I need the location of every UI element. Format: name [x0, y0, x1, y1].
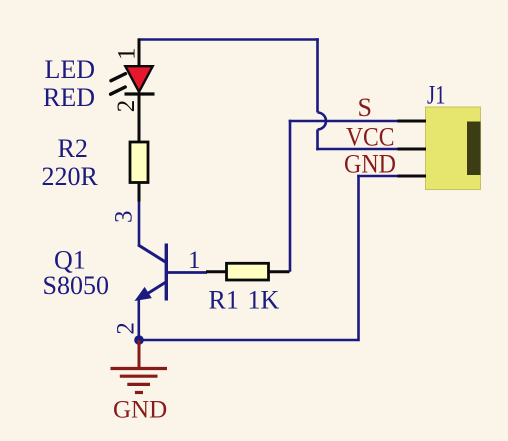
svg-text:VCC: VCC: [346, 123, 395, 152]
wire: GND vertical down: [357, 175, 360, 342]
LED light tick mark upper: [111, 74, 126, 81]
wire: right vertical upper segment (above crossover): [316, 38, 319, 112]
svg-text:220R: 220R: [42, 162, 99, 191]
wire: VCC horizontal to J1 pin 2: [316, 148, 398, 151]
wire: bottom horizontal from junction to GND vertical: [139, 339, 359, 342]
R2 body: [130, 142, 148, 183]
wire: R2 bottom to Q1 collector: [138, 200, 141, 246]
svg-text:2: 2: [113, 100, 140, 113]
R1 right pin (black): [269, 270, 290, 273]
svg-text:3: 3: [111, 211, 138, 224]
svg-text:2: 2: [113, 322, 140, 335]
LED pin 2 line (cathode, black): [138, 94, 141, 143]
wire: right vertical lower segment (below crossover): [316, 130, 319, 151]
svg-text:1K: 1K: [248, 286, 280, 315]
Q1 collector diagonal: [138, 245, 166, 262]
svg-text:R2: R2: [58, 134, 88, 163]
Q1 base line (navy): [166, 271, 207, 274]
Q1 emitter diagonal: [141, 282, 167, 298]
LED triangle (anode): [125, 66, 152, 92]
R1 left pin (black): [206, 270, 227, 273]
ground bar 4: [135, 391, 143, 394]
LED light tick mark lower: [111, 87, 126, 94]
wire: S horizontal from left vertical to J1 pin 1: [289, 120, 398, 123]
J1 pin 3 line (GND, black): [398, 175, 427, 178]
ground stem: [138, 340, 141, 369]
svg-text:1: 1: [188, 247, 201, 274]
junction node at emitter/ground/bottom wire: [134, 335, 144, 345]
svg-text:GND: GND: [113, 397, 167, 424]
svg-text:GND: GND: [344, 150, 396, 179]
LED pin 1 line (anode, black): [138, 39, 141, 68]
R2 bottom pin (black): [138, 183, 141, 202]
wire: crossover hop arc over S wire: [318, 113, 327, 130]
ground bar 3: [127, 383, 150, 386]
J1 pin 2 line (VCC, black): [398, 148, 427, 151]
wire: top horizontal from LED anode to right vertical: [138, 38, 319, 41]
LED cathode bar: [125, 92, 155, 95]
ground bar 2: [120, 375, 158, 378]
svg-text:R1: R1: [209, 286, 239, 315]
J1 pin 1 line (S, black): [398, 120, 427, 123]
R1 body: [227, 263, 269, 280]
wire: emitter vertical to junction: [138, 297, 141, 340]
svg-text:RED: RED: [43, 83, 95, 112]
Q1 emitter arrow: [136, 288, 151, 300]
ground bar 1: [111, 367, 168, 370]
J1 body: [426, 107, 481, 190]
Q1 base bar: [165, 244, 168, 301]
svg-text:J1: J1: [427, 81, 446, 110]
wire: S vertical down to R1 right pin: [289, 120, 292, 272]
svg-text:LED: LED: [45, 55, 96, 84]
svg-text:1: 1: [114, 48, 141, 61]
J1 polarity bar: [467, 122, 481, 176]
svg-text:S: S: [358, 93, 372, 122]
svg-text:S8050: S8050: [43, 271, 109, 300]
wire: GND horizontal stub to J1 pin 3: [357, 175, 398, 178]
